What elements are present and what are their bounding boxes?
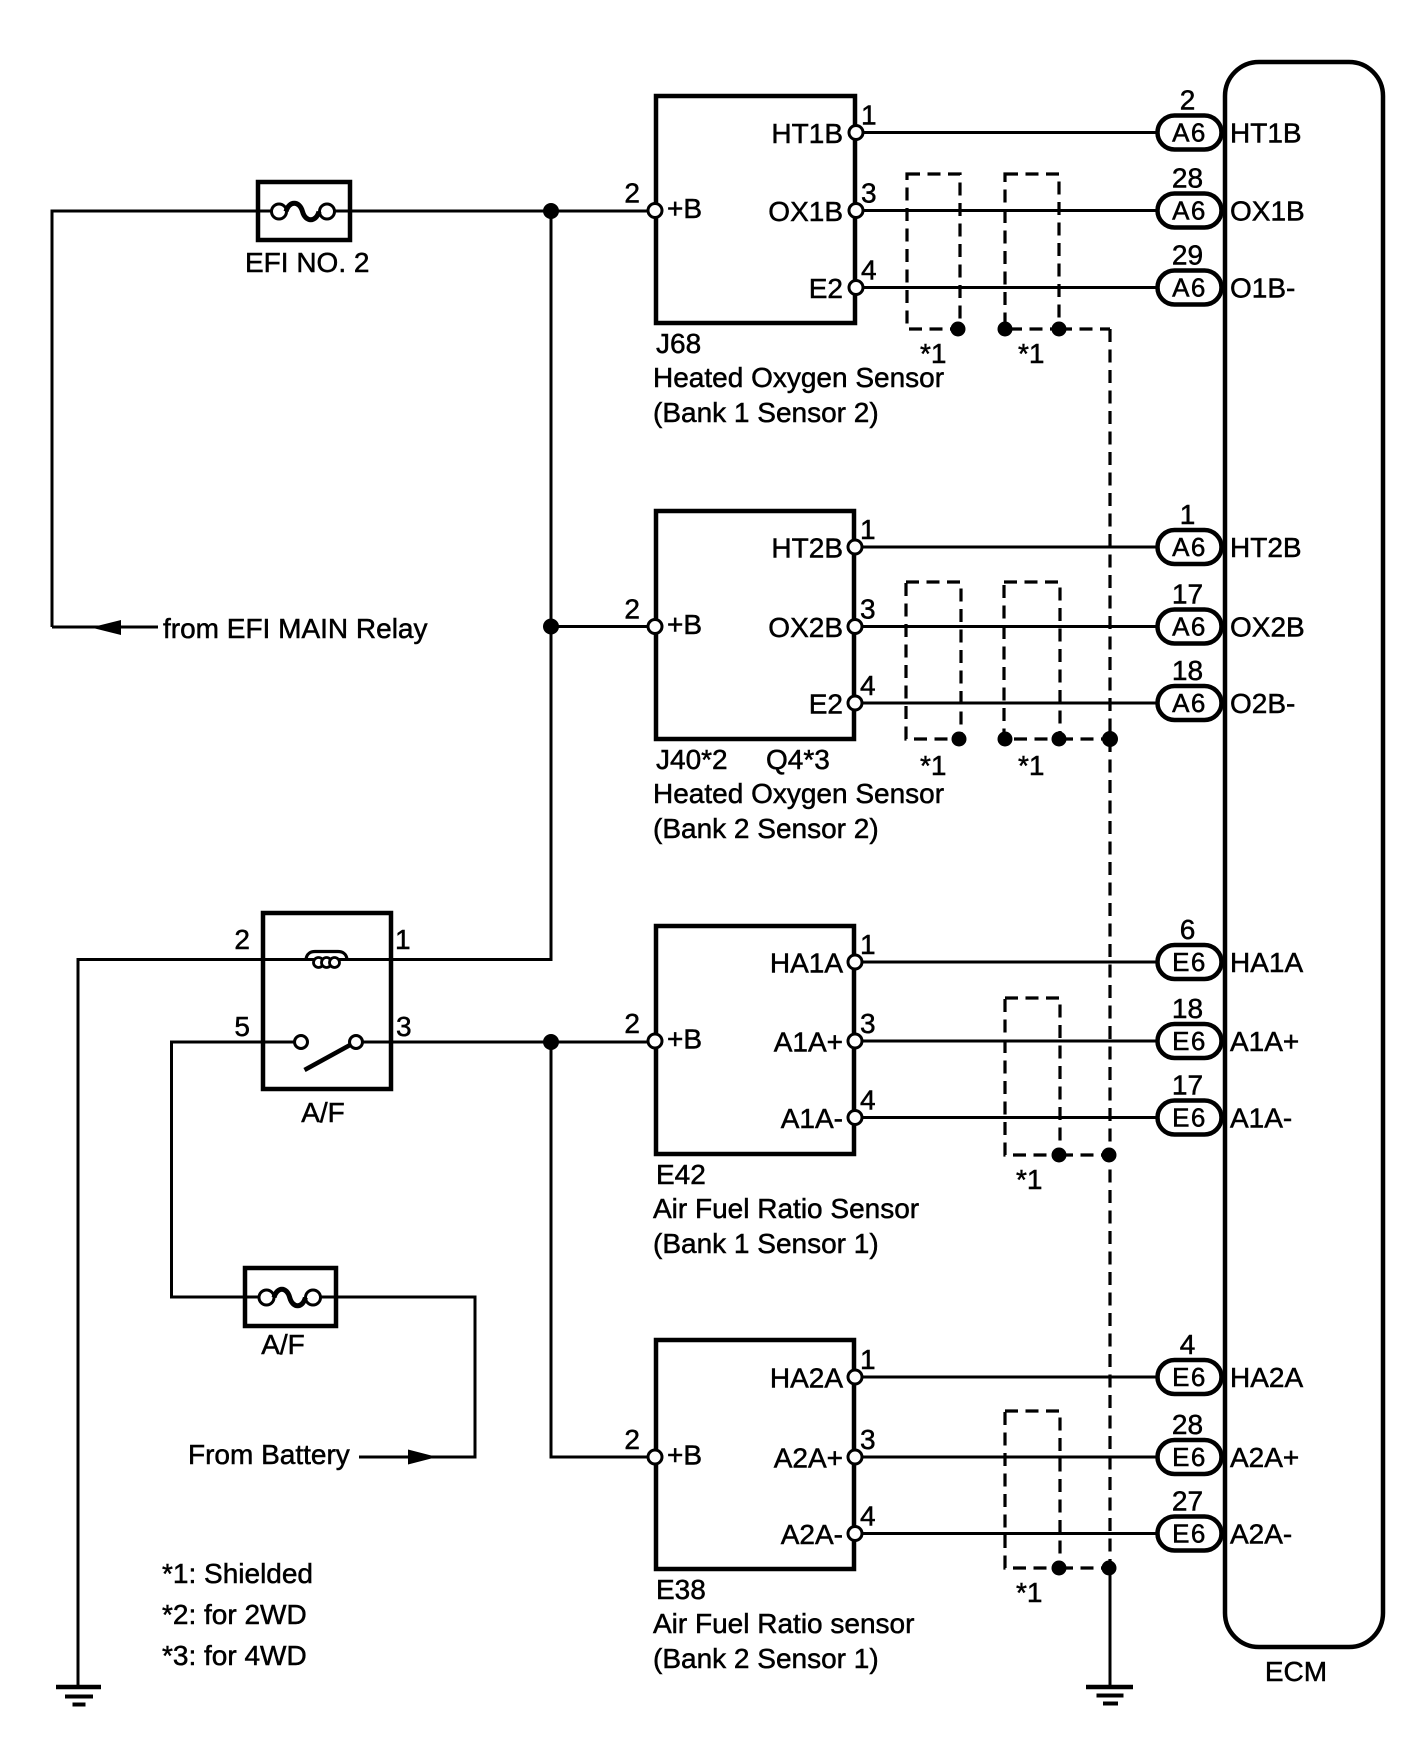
svg-text:HA1A: HA1A <box>1230 947 1303 978</box>
svg-text:Heated Oxygen Sensor: Heated Oxygen Sensor <box>653 778 944 809</box>
sensor E38 pin 1 HA2A <box>770 1344 876 1394</box>
svg-text:*1: *1 <box>1016 1164 1042 1195</box>
wire E38 A2A+ to ECM <box>862 1456 1157 1459</box>
svg-text:4: 4 <box>860 1501 876 1532</box>
ECM connector E6 pin 27 (A2A-) <box>1158 1486 1293 1551</box>
shield junction dots J68 <box>951 322 1067 337</box>
svg-text:E2: E2 <box>809 689 843 720</box>
wire from EFI MAIN Relay (left feed, corner and arrow line) <box>52 211 272 627</box>
label E38 designator <box>656 1574 706 1605</box>
arrowhead From Battery <box>408 1450 437 1465</box>
svg-text:2: 2 <box>624 1424 640 1455</box>
svg-text:2: 2 <box>624 594 640 625</box>
svg-text:1: 1 <box>1180 499 1196 530</box>
shield (dashed) around E38 wires <box>1005 1411 1110 1568</box>
ECM connector E6 pin 17 (A1A-) <box>1158 1070 1293 1135</box>
svg-text:27: 27 <box>1172 1486 1203 1517</box>
sensor E42 pin 2 +B <box>624 1008 702 1055</box>
relay coil <box>263 952 391 968</box>
svg-text:HT1B: HT1B <box>1230 118 1302 149</box>
ECM connector A6 pin 28 (OX1B) <box>1158 163 1305 228</box>
arrowhead to EFI MAIN Relay <box>91 620 121 635</box>
wire drain to ground (solid) <box>1109 1568 1112 1687</box>
svg-text:HT2B: HT2B <box>1230 532 1302 563</box>
svg-text:A6: A6 <box>1172 532 1207 562</box>
svg-text:*1: *1 <box>920 750 946 781</box>
svg-text:Heated Oxygen Sensor: Heated Oxygen Sensor <box>653 362 944 393</box>
svg-text:(Bank 2 Sensor 2): (Bank 2 Sensor 2) <box>653 813 879 844</box>
svg-text:J40*2: J40*2 <box>656 744 728 775</box>
svg-text:3: 3 <box>860 1424 876 1455</box>
shield junction dots E38 <box>1052 1561 1117 1576</box>
svg-text:Air Fuel Ratio Sensor: Air Fuel Ratio Sensor <box>653 1193 919 1224</box>
wire J68 OX1B to ECM <box>863 209 1157 212</box>
ECM outline <box>1225 62 1383 1647</box>
svg-text:A1A-: A1A- <box>781 1103 843 1134</box>
svg-text:+B: +B <box>667 609 702 640</box>
svg-text:2: 2 <box>234 924 250 955</box>
svg-text:+B: +B <box>667 193 702 224</box>
svg-text:*3: for 4WD: *3: for 4WD <box>162 1640 307 1671</box>
svg-text:A/F: A/F <box>261 1329 305 1360</box>
sensor E38 box <box>656 1340 854 1569</box>
svg-text:HT2B: HT2B <box>771 533 843 564</box>
label J68 designator <box>656 328 701 359</box>
svg-text:1: 1 <box>395 924 411 955</box>
wire bus down to E38 +B <box>551 1042 648 1457</box>
svg-text:E6: E6 <box>1172 1442 1207 1472</box>
label J40 description <box>653 778 944 844</box>
wire fuse to J68 +B <box>334 210 648 213</box>
wire relay pin 2 to ground <box>78 960 263 1688</box>
sensor E42 box <box>656 926 854 1154</box>
label J40 designator <box>656 744 830 775</box>
svg-text:HA2A: HA2A <box>770 1363 843 1394</box>
svg-text:+B: +B <box>667 1024 702 1055</box>
sensor J40 pin 4 E2 <box>809 670 876 720</box>
svg-text:29: 29 <box>1172 240 1203 271</box>
svg-text:E6: E6 <box>1172 1026 1207 1056</box>
shield drain dashed vertical line <box>1108 329 1111 1568</box>
svg-text:OX1B: OX1B <box>768 196 843 227</box>
svg-text:HA2A: HA2A <box>1230 1362 1303 1393</box>
svg-text:OX1B: OX1B <box>1230 196 1305 227</box>
wire E42 A1A+ to ECM <box>862 1040 1157 1043</box>
junction dot at fuse output bus <box>543 203 559 219</box>
svg-text:17: 17 <box>1172 1070 1203 1101</box>
fuse EFI NO. 2 <box>258 182 350 240</box>
svg-text:E2: E2 <box>809 273 843 304</box>
wire J40 OX2B to ECM <box>862 625 1157 628</box>
wire A/F fuse to battery junction <box>320 1297 475 1457</box>
sensor J40 pin 3 OX2B <box>768 594 875 644</box>
svg-text:E6: E6 <box>1172 947 1207 977</box>
label E42 description <box>653 1193 919 1259</box>
sensor J40 pin 1 HT2B <box>771 514 875 564</box>
svg-text:3: 3 <box>396 1011 412 1042</box>
svg-text:(Bank 2 Sensor 1): (Bank 2 Sensor 1) <box>653 1643 879 1674</box>
shield junction dots J40 <box>952 732 1118 747</box>
svg-text:A1A-: A1A- <box>1230 1103 1292 1134</box>
svg-text:1: 1 <box>860 929 876 960</box>
svg-text:OX2B: OX2B <box>1230 612 1305 643</box>
sensor J68 pin 3 OX1B <box>768 178 876 228</box>
fuse A/F <box>245 1268 336 1326</box>
sensor J68 pin 4 E2 <box>809 255 877 305</box>
svg-text:O1B-: O1B- <box>1230 273 1295 304</box>
svg-text:A6: A6 <box>1172 118 1207 148</box>
svg-text:*1: *1 <box>920 338 946 369</box>
ECM connector A6 pin 1 (HT2B) <box>1158 499 1302 564</box>
shield (dashed) around J68 wires <box>907 174 1110 329</box>
wire J68 E2 to ECM <box>863 286 1157 289</box>
svg-text:From Battery: From Battery <box>188 1439 350 1470</box>
svg-text:4: 4 <box>861 255 877 286</box>
label E38 description <box>653 1608 914 1674</box>
svg-text:17: 17 <box>1172 579 1203 610</box>
wire From Battery line <box>359 1456 410 1459</box>
svg-text:2: 2 <box>624 178 640 209</box>
svg-text:4: 4 <box>860 670 876 701</box>
sensor E38 pin 2 +B <box>624 1424 702 1471</box>
svg-text:6: 6 <box>1180 914 1196 945</box>
svg-text:28: 28 <box>1172 1409 1203 1440</box>
svg-text:E38: E38 <box>656 1574 706 1605</box>
svg-text:A6: A6 <box>1172 273 1207 303</box>
ECM connector A6 pin 17 (OX2B) <box>1158 579 1305 644</box>
svg-text:HA1A: HA1A <box>770 948 843 979</box>
svg-text:*2: for 2WD: *2: for 2WD <box>162 1599 307 1630</box>
junction dot on drain at section 2 bus <box>1102 731 1118 747</box>
wire relay pin 5 to A/F fuse <box>172 1042 264 1297</box>
svg-text:E42: E42 <box>656 1159 706 1190</box>
wire J40 E2 to ECM <box>862 702 1157 705</box>
ECM connector A6 pin 29 (O1B-) <box>1158 240 1296 305</box>
sensor J68 box <box>656 96 855 323</box>
sensor J68 pin 1 HT1B <box>771 100 876 150</box>
svg-text:3: 3 <box>861 178 877 209</box>
label J68 description <box>653 362 944 428</box>
svg-text:18: 18 <box>1172 655 1203 686</box>
svg-text:E6: E6 <box>1172 1362 1207 1392</box>
sensor E42 pin 1 HA1A <box>770 929 876 979</box>
wire E38 HA2A to ECM <box>862 1376 1157 1379</box>
svg-text:A6: A6 <box>1172 612 1207 642</box>
svg-text:4: 4 <box>860 1085 876 1116</box>
svg-text:OX2B: OX2B <box>768 612 843 643</box>
ECM connector E6 pin 28 (A2A+) <box>1158 1409 1300 1474</box>
svg-text:1: 1 <box>860 1344 876 1375</box>
sensor J68 pin 2 +B <box>624 178 702 225</box>
svg-text:3: 3 <box>860 1008 876 1039</box>
svg-text:A/F: A/F <box>301 1097 345 1128</box>
svg-text:*1: *1 <box>1018 750 1044 781</box>
wire E38 A2A- to ECM <box>862 1532 1157 1535</box>
wire E42 A1A- to ECM <box>862 1116 1157 1119</box>
junction dot at J40 branch <box>543 619 559 635</box>
shield junction dots E42 <box>1052 1148 1117 1163</box>
ground (battery side) <box>56 1687 101 1705</box>
wire branch to J40 +B <box>551 625 648 628</box>
relay A/F <box>263 913 391 1089</box>
svg-text:A1A+: A1A+ <box>1230 1026 1299 1057</box>
svg-text:*1: *1 <box>1018 338 1044 369</box>
svg-text:ECM: ECM <box>1265 1656 1327 1687</box>
sensor E38 pin 4 A2A- <box>781 1501 876 1551</box>
svg-text:18: 18 <box>1172 993 1203 1024</box>
shield (dashed) around J40 wires <box>906 582 1110 739</box>
sensor E42 pin 3 A1A+ <box>774 1008 876 1058</box>
ground (ECM side) <box>1086 1687 1133 1704</box>
svg-text:+B: +B <box>667 1440 702 1471</box>
svg-text:A2A+: A2A+ <box>774 1443 843 1474</box>
sensor J40 pin 2 +B <box>624 594 702 641</box>
ECM connector E6 pin 4 (HA2A) <box>1158 1329 1304 1394</box>
wire J68 HT1B to ECM <box>863 131 1157 134</box>
svg-text:A2A+: A2A+ <box>1230 1442 1299 1473</box>
sensor E38 pin 3 A2A+ <box>774 1424 876 1474</box>
junction dot at E42 branch <box>543 1034 559 1050</box>
svg-text:Air Fuel Ratio sensor: Air Fuel Ratio sensor <box>653 1608 914 1639</box>
svg-text:J68: J68 <box>656 328 701 359</box>
ECM connector A6 pin 18 (O2B-) <box>1158 655 1296 720</box>
sensor E42 pin 4 A1A- <box>781 1085 876 1135</box>
svg-text:2: 2 <box>1180 85 1196 116</box>
ECM connector E6 pin 18 (A1A+) <box>1158 993 1300 1058</box>
relay switch <box>263 1036 391 1071</box>
svg-text:2: 2 <box>624 1008 640 1039</box>
svg-text:A1A+: A1A+ <box>774 1027 843 1058</box>
ECM connector A6 pin 2 (HT1B) <box>1158 85 1302 150</box>
svg-text:A2A-: A2A- <box>1230 1519 1292 1550</box>
svg-text:*1: *1 <box>1016 1577 1042 1608</box>
svg-text:EFI NO. 2: EFI NO. 2 <box>245 247 369 278</box>
label E42 designator <box>656 1159 706 1190</box>
wire main +B bus down to relay pin 1 <box>391 211 551 960</box>
svg-text:3: 3 <box>860 594 876 625</box>
wire E42 HA1A to ECM <box>862 961 1157 964</box>
svg-text:from EFI MAIN Relay: from EFI MAIN Relay <box>163 613 427 644</box>
svg-text:*1: Shielded: *1: Shielded <box>162 1558 313 1589</box>
labels *1 shielded J68 <box>920 338 1044 369</box>
labels *1 shielded J40 <box>920 750 1044 781</box>
svg-text:28: 28 <box>1172 163 1203 194</box>
svg-text:HT1B: HT1B <box>771 118 843 149</box>
wire J40 HT2B to ECM <box>862 546 1157 549</box>
svg-text:5: 5 <box>234 1011 250 1042</box>
shield (dashed) around E42 wires <box>1005 998 1110 1155</box>
svg-text:1: 1 <box>860 514 876 545</box>
ECM connector E6 pin 6 (HA1A) <box>1158 914 1304 979</box>
svg-text:A6: A6 <box>1172 196 1207 226</box>
svg-text:Q4*3: Q4*3 <box>766 744 830 775</box>
wire relay pin 3 to E42 +B <box>391 1041 648 1044</box>
sensor J40 box <box>656 511 854 739</box>
svg-text:(Bank 1 Sensor 1): (Bank 1 Sensor 1) <box>653 1228 879 1259</box>
svg-text:4: 4 <box>1180 1329 1196 1360</box>
svg-text:1: 1 <box>861 100 877 131</box>
svg-text:A2A-: A2A- <box>781 1519 843 1550</box>
svg-text:O2B-: O2B- <box>1230 688 1295 719</box>
svg-text:(Bank 1 Sensor 2): (Bank 1 Sensor 2) <box>653 397 879 428</box>
svg-text:A6: A6 <box>1172 688 1207 718</box>
svg-text:E6: E6 <box>1172 1103 1207 1133</box>
svg-text:E6: E6 <box>1172 1519 1207 1549</box>
